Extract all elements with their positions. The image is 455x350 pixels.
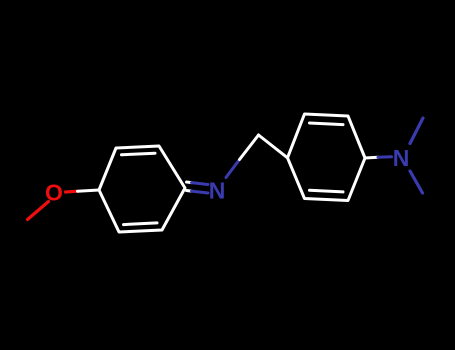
N-methyl bond (lower) bbox=[410, 171, 423, 193]
left ring inner double bond (top) bbox=[122, 153, 156, 155]
C=N double bond lower line (white half) bbox=[187, 189, 192, 193]
bond O to ring (red half) bbox=[66, 190, 78, 194]
svg-text:O: O bbox=[45, 180, 63, 206]
bond N to CH2 (blue half) bbox=[226, 160, 240, 178]
C=N double bond upper line (blue half) bbox=[192, 183, 209, 185]
methoxy methyl bond (O-CH3) bbox=[28, 202, 49, 220]
left ring inner double bond (bottom) bbox=[124, 223, 158, 225]
right benzene ring bbox=[288, 114, 366, 201]
bond ring to NMe2 (white half) bbox=[365, 156, 378, 160]
bond O to ring (white half) bbox=[78, 190, 100, 191]
right ring inner double bond (bottom) bbox=[310, 190, 344, 192]
right ring inner double bond (top) bbox=[310, 123, 344, 125]
C=N double bond lower line (blue half) bbox=[192, 191, 209, 193]
C=N double bond upper line (white half) bbox=[187, 181, 192, 185]
bond ring to NMe2 (blue half) bbox=[378, 155, 392, 158]
svg-text:N: N bbox=[209, 178, 226, 204]
bond N to CH2 (white half) bbox=[240, 135, 259, 160]
bond CH2 to right ring bbox=[259, 135, 288, 158]
N-methyl bond (upper) bbox=[410, 118, 423, 144]
svg-text:N: N bbox=[393, 145, 410, 171]
left benzene ring bbox=[99, 146, 185, 232]
